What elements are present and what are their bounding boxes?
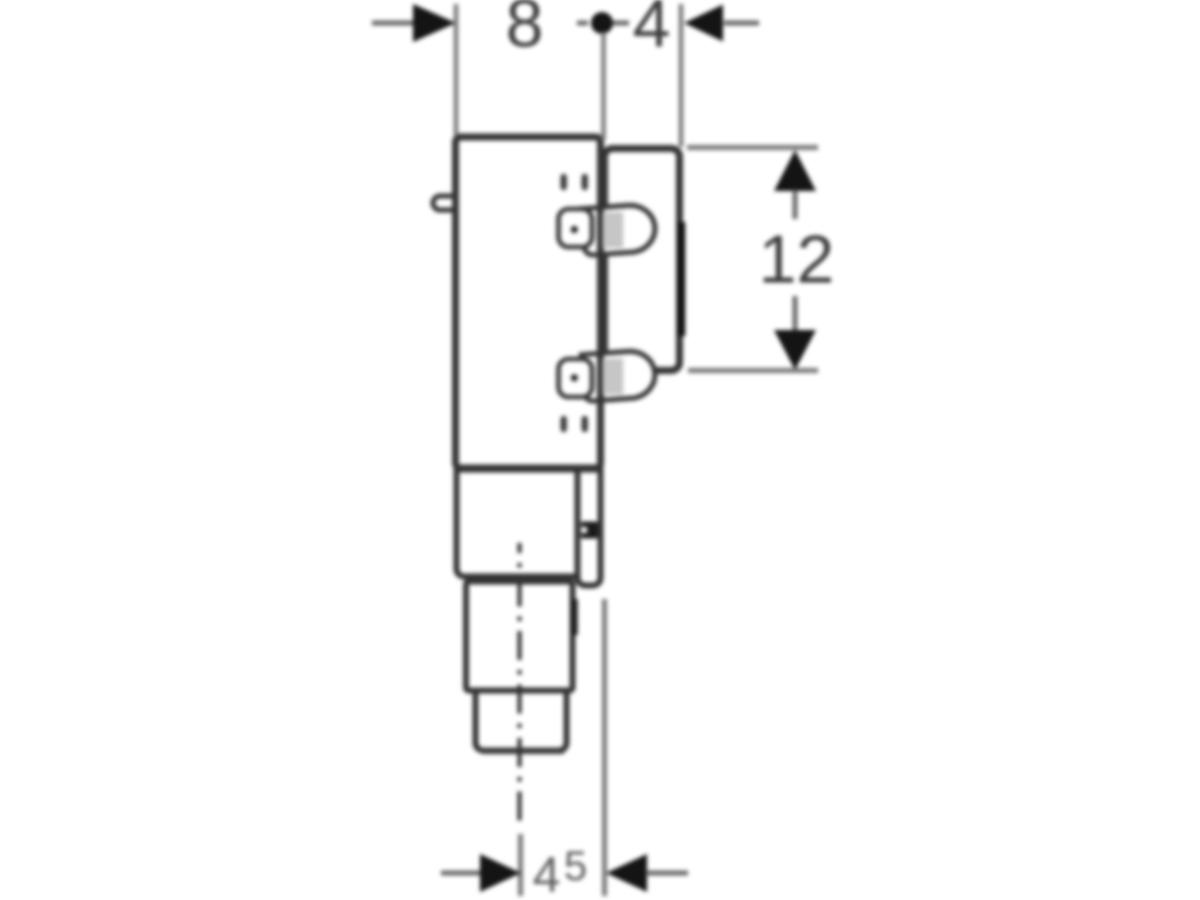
svg-text:8: 8 bbox=[506, 0, 544, 62]
svg-text:12: 12 bbox=[759, 222, 835, 298]
svg-text:4: 4 bbox=[533, 847, 561, 900]
svg-text:4: 4 bbox=[633, 0, 671, 62]
svg-text:5: 5 bbox=[564, 842, 587, 889]
